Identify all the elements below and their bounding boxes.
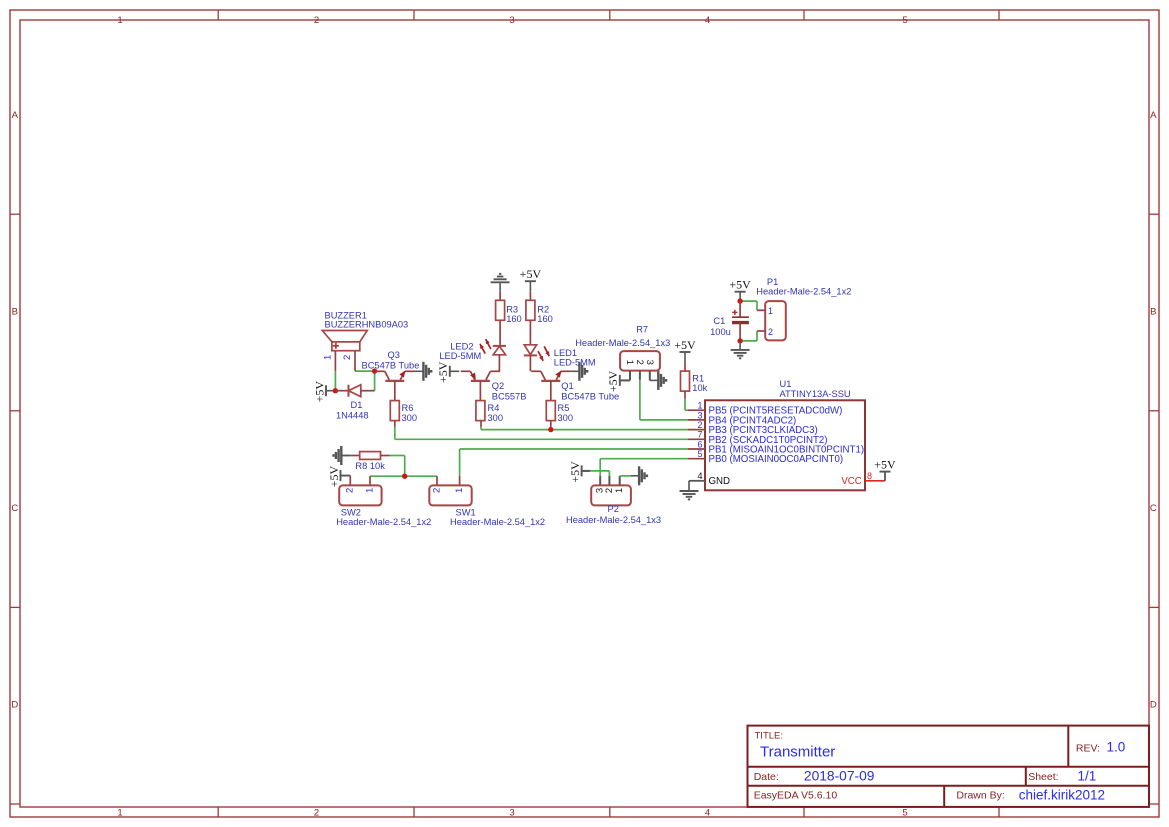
svg-text:R4: R4 [488, 403, 500, 413]
svg-text:10k: 10k [692, 383, 707, 393]
svg-text:2: 2 [345, 488, 356, 493]
svg-text:REV:: REV: [1076, 743, 1100, 755]
svg-text:+5V: +5V [606, 370, 620, 392]
svg-text:+5V: +5V [729, 278, 751, 292]
svg-text:1: 1 [768, 306, 773, 316]
svg-text:300: 300 [488, 413, 504, 423]
svg-text:P2: P2 [608, 504, 619, 514]
svg-text:P1: P1 [767, 277, 778, 287]
svg-text:GND: GND [709, 476, 731, 487]
svg-text:100u: 100u [710, 327, 731, 337]
svg-text:1: 1 [454, 488, 465, 493]
svg-text:B: B [1150, 307, 1156, 318]
svg-text:Header-Male-2.54_1x2: Header-Male-2.54_1x2 [450, 517, 545, 527]
svg-text:D: D [11, 700, 18, 711]
svg-text:5: 5 [902, 807, 907, 818]
svg-text:Date:: Date: [754, 771, 779, 783]
svg-text:2: 2 [768, 327, 773, 337]
svg-text:2: 2 [342, 355, 353, 360]
svg-text:4: 4 [705, 15, 710, 26]
svg-text:R8 10k: R8 10k [355, 461, 385, 471]
svg-text:4: 4 [705, 807, 710, 818]
svg-text:LED-5MM: LED-5MM [554, 357, 596, 367]
svg-text:EasyEDA V5.6.10: EasyEDA V5.6.10 [754, 790, 838, 802]
svg-text:Transmitter: Transmitter [760, 744, 835, 761]
svg-text:5: 5 [902, 15, 907, 26]
svg-text:3: 3 [644, 360, 655, 365]
svg-text:Q1: Q1 [561, 381, 573, 391]
svg-text:2: 2 [314, 15, 319, 26]
svg-text:BUZZERHNB09A03: BUZZERHNB09A03 [325, 320, 409, 330]
svg-text:2: 2 [697, 420, 702, 430]
svg-text:+5V: +5V [312, 381, 326, 403]
svg-text:Q2: Q2 [492, 381, 504, 391]
svg-text:+5V: +5V [568, 461, 582, 483]
svg-text:Header-Male-2.54_1x2: Header-Male-2.54_1x2 [756, 287, 851, 297]
svg-text:4: 4 [697, 471, 702, 481]
svg-text:C: C [11, 503, 18, 514]
svg-text:2: 2 [314, 807, 319, 818]
svg-text:PB0 (MOSIAIN0OC0APCINT0): PB0 (MOSIAIN0OC0APCINT0) [709, 454, 844, 465]
svg-text:1N4448: 1N4448 [336, 411, 369, 421]
svg-text:300: 300 [402, 413, 418, 423]
svg-text:A: A [1150, 110, 1157, 121]
svg-text:Q3: Q3 [388, 350, 400, 360]
svg-text:3: 3 [697, 410, 702, 420]
svg-text:A: A [12, 110, 19, 121]
svg-text:C1: C1 [713, 316, 725, 326]
svg-text:8: 8 [867, 471, 872, 481]
svg-text:+5V: +5V [327, 466, 341, 488]
svg-text:2018-07-09: 2018-07-09 [804, 768, 875, 783]
svg-text:3: 3 [509, 807, 514, 818]
svg-text:TITLE:: TITLE: [755, 731, 784, 742]
svg-text:C: C [1150, 503, 1157, 514]
svg-text:1: 1 [697, 401, 702, 411]
svg-text:+5V: +5V [436, 361, 450, 383]
svg-text:U1: U1 [780, 379, 792, 389]
svg-text:1/1: 1/1 [1078, 768, 1097, 783]
svg-text:1: 1 [364, 488, 375, 493]
svg-text:300: 300 [558, 413, 574, 423]
svg-text:D: D [1150, 700, 1157, 711]
svg-text:Header-Male-2.54_1x3: Header-Male-2.54_1x3 [575, 338, 670, 348]
svg-text:1: 1 [117, 807, 122, 818]
svg-text:1: 1 [614, 488, 625, 493]
svg-text:160: 160 [537, 314, 553, 324]
svg-text:Header-Male-2.54_1x3: Header-Male-2.54_1x3 [566, 515, 661, 525]
svg-text:R5: R5 [558, 403, 570, 413]
svg-text:7: 7 [697, 430, 702, 440]
svg-text:1: 1 [624, 360, 635, 365]
svg-text:chief.kirik2012: chief.kirik2012 [1019, 787, 1105, 802]
svg-text:2: 2 [431, 488, 442, 493]
svg-text:1: 1 [117, 15, 122, 26]
svg-text:+5V: +5V [520, 267, 542, 281]
svg-text:VCC: VCC [841, 476, 861, 487]
svg-text:ATTINY13A-SSU: ATTINY13A-SSU [780, 389, 851, 399]
svg-text:+5V: +5V [874, 457, 896, 471]
svg-text:R6: R6 [402, 403, 414, 413]
svg-text:3: 3 [509, 15, 514, 26]
svg-text:5: 5 [697, 449, 702, 459]
svg-text:Drawn By:: Drawn By: [956, 790, 1004, 802]
svg-text:R7: R7 [636, 325, 648, 335]
svg-text:1.0: 1.0 [1107, 740, 1126, 755]
svg-text:LED-5MM: LED-5MM [439, 351, 481, 361]
svg-text:D1: D1 [351, 400, 363, 410]
svg-text:Sheet:: Sheet: [1028, 771, 1058, 783]
svg-text:6: 6 [697, 439, 702, 449]
svg-text:Header-Male-2.54_1x2: Header-Male-2.54_1x2 [336, 517, 431, 527]
svg-text:1: 1 [322, 355, 333, 360]
svg-text:+5V: +5V [674, 338, 696, 352]
svg-text:BC557B: BC557B [492, 392, 527, 402]
svg-text:B: B [12, 307, 18, 318]
svg-text:160: 160 [506, 314, 522, 324]
svg-text:2: 2 [634, 360, 645, 365]
svg-text:BC547B Tube: BC547B Tube [362, 361, 420, 371]
